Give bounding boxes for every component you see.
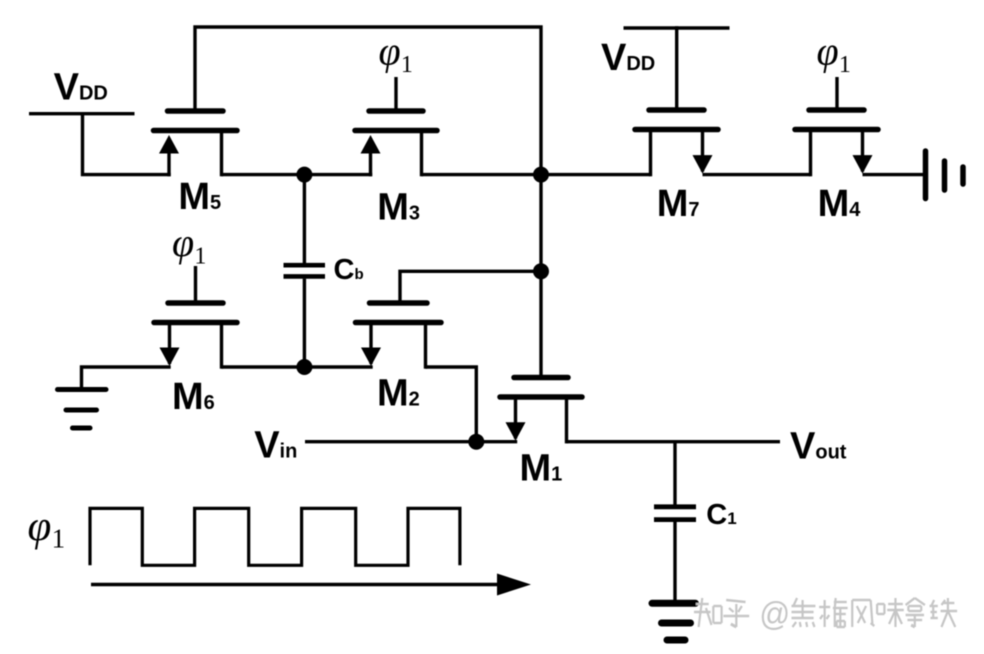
svg-text:M5: M5 <box>178 176 221 218</box>
svg-text:M6: M6 <box>172 376 215 418</box>
wire: VDD top down to M7 gate <box>675 26 678 109</box>
svg-text:C1: C1 <box>706 499 736 531</box>
transistor M4 <box>795 110 878 176</box>
svg-text:Vout: Vout <box>790 425 847 467</box>
transistor M6 <box>154 303 237 369</box>
ground right symbol (rotated) <box>926 151 964 199</box>
transistor M7 <box>635 110 718 176</box>
ground bottom symbol <box>652 603 696 640</box>
capacitor Cb <box>284 173 326 368</box>
svg-text:@: @ <box>759 595 790 632</box>
wire: M3 drain to M7 source (through output node) <box>422 173 651 176</box>
wire: M4 gate stub <box>835 77 838 109</box>
transistor M3 <box>355 111 437 176</box>
svg-text:1: 1 <box>52 523 66 553</box>
svg-text:φ: φ <box>172 220 194 265</box>
junction node B on output column <box>533 263 549 279</box>
ground left symbol <box>58 390 107 429</box>
wire: M2 drain down to Vin node <box>426 367 477 442</box>
transistor M5 <box>154 111 238 176</box>
wire: top rail from M5 gate over to output column down to M1 gate <box>195 27 541 378</box>
svg-text:1: 1 <box>839 52 851 78</box>
svg-text:φ: φ <box>28 503 52 550</box>
waveform: phi1 clock square wave <box>90 508 460 565</box>
svg-text:1: 1 <box>194 243 206 269</box>
waveform time axis arrow <box>91 574 531 596</box>
wire: Vin to M1 source <box>305 440 517 443</box>
power VDD left rail symbol <box>29 112 135 115</box>
svg-text:φ: φ <box>379 29 401 74</box>
junction node: Vin / M2 drain <box>468 434 484 450</box>
svg-text:VDD: VDD <box>54 66 108 108</box>
svg-text:M3: M3 <box>377 186 420 228</box>
svg-text:M4: M4 <box>818 183 862 225</box>
svg-text:Vin: Vin <box>254 425 297 467</box>
wire: M3 gate stub <box>394 77 397 110</box>
junction node: output column top <box>533 167 549 183</box>
wire: left ground up to M6 source <box>82 367 171 389</box>
svg-text:1: 1 <box>401 52 413 78</box>
svg-text:φ: φ <box>817 29 839 74</box>
wire: M2 gate up and over to output column node B <box>400 271 541 302</box>
wire: M4 drain to right ground <box>863 173 926 176</box>
svg-text:Cb: Cb <box>334 254 364 286</box>
wire: M7 drain to M4 source <box>703 173 811 176</box>
wire: M6 gate stub <box>194 266 197 302</box>
wire: M5 drain to M3 source (through Cb-top node) <box>222 173 373 176</box>
watermark: zhihu @jiaotang-fengwei-natie <box>694 595 957 632</box>
svg-text:M7: M7 <box>657 183 700 225</box>
wire: VDD left down to M5 source <box>83 112 171 175</box>
capacitor C1 <box>654 440 696 601</box>
junction node: Cb bottom <box>296 359 312 375</box>
svg-text:M2: M2 <box>377 373 420 415</box>
svg-text:VDD: VDD <box>601 37 655 79</box>
transistor M1 <box>500 378 582 444</box>
wire: M1 drain to Vout <box>567 440 781 443</box>
junction node: Cb top on M5-M3 rail <box>296 167 312 183</box>
wire: M6 drain to M2 source (through Cb-bottom node) <box>222 365 373 368</box>
transistor M2 <box>356 303 442 369</box>
svg-text:M1: M1 <box>520 448 563 490</box>
power VDD top bar symbol <box>624 26 730 29</box>
